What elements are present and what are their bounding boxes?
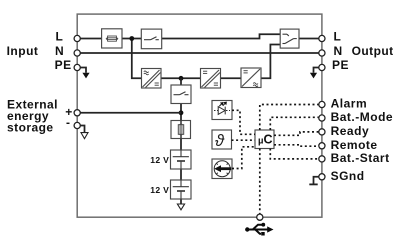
svg-text:Input: Input bbox=[7, 44, 39, 58]
relay K1 symbol bbox=[283, 34, 297, 43]
svg-text:SGnd: SGnd bbox=[331, 169, 365, 183]
node junction DC bus bbox=[179, 76, 184, 81]
arrow ext storage minus open bbox=[81, 133, 88, 139]
wire relay to L output bbox=[299, 38, 322, 40]
svg-text:Alarm: Alarm bbox=[331, 97, 368, 111]
wire DC bus box1-box2 bbox=[161, 77, 201, 79]
svg-text:Bat.-Mode: Bat.-Mode bbox=[331, 110, 394, 124]
battery B1 symbol bbox=[173, 150, 189, 169]
svg-text:Ready: Ready bbox=[331, 124, 370, 138]
dotted ready line bbox=[274, 132, 322, 135]
svg-text:N: N bbox=[55, 44, 64, 58]
wire DC bus box2-box3 bbox=[221, 77, 242, 79]
microcontroller uC box bbox=[255, 130, 274, 149]
fuse F1 symbol bbox=[106, 36, 119, 41]
switch S1 symbol bbox=[144, 37, 159, 40]
fuse F1 input box bbox=[102, 29, 122, 48]
terminal sgnd bbox=[319, 174, 325, 180]
svg-text:L: L bbox=[56, 30, 63, 44]
dotted temp to uC bbox=[232, 139, 256, 141]
current sensor symbol circle bbox=[214, 161, 230, 177]
wire PE right stub bbox=[314, 68, 322, 73]
current sensor ticks bbox=[216, 163, 228, 174]
svg-text:12 V: 12 V bbox=[150, 155, 169, 165]
terminal L in bbox=[74, 35, 80, 41]
svg-text:Remote: Remote bbox=[331, 138, 378, 152]
fuse F2 symbol bbox=[178, 121, 183, 139]
USB symbol bbox=[247, 225, 269, 234]
wire N line bbox=[77, 52, 322, 54]
terminal N in bbox=[74, 50, 80, 56]
battery B2 box bbox=[171, 180, 192, 199]
switch S2 symbol bbox=[174, 92, 189, 95]
terminal plus bbox=[74, 110, 80, 116]
glyph U3 DC bbox=[244, 71, 248, 73]
wire branch L down to AC/DC bbox=[132, 39, 142, 79]
switch S2 battery box bbox=[171, 85, 191, 104]
dotted LED to uC bbox=[232, 110, 255, 134]
svg-text:Output: Output bbox=[352, 44, 394, 58]
node junction L branch bbox=[129, 36, 134, 41]
battery B1 box bbox=[171, 150, 192, 169]
terminal L out bbox=[319, 35, 325, 41]
wire PE left stub bbox=[77, 68, 86, 73]
wire L fuse to switch bbox=[122, 38, 142, 40]
dotted alarm line bbox=[260, 105, 322, 131]
current sensor box bbox=[212, 159, 232, 179]
terminal remote bbox=[319, 143, 325, 149]
LED symbol bbox=[214, 102, 230, 115]
glyph U2 DC top bbox=[203, 71, 207, 73]
dotted current sensor to uC bbox=[232, 147, 255, 169]
node junction ext storage bbox=[179, 110, 184, 115]
SGnd symbol bbox=[314, 177, 322, 184]
converter U3 DC/AC box bbox=[241, 68, 261, 88]
glyph U2 DC bottom bbox=[214, 83, 218, 85]
dotted usb line bbox=[259, 149, 261, 218]
switch S1 input box bbox=[141, 29, 161, 49]
terminal N out bbox=[319, 50, 325, 56]
relay K1 transfer switch box bbox=[280, 29, 299, 48]
dotted bat-start line bbox=[270, 149, 322, 159]
glyph U3 AC bbox=[253, 83, 258, 87]
outer enclosure box bbox=[77, 14, 322, 217]
svg-text:µC: µC bbox=[258, 132, 273, 146]
terminal minus bbox=[74, 122, 80, 128]
wire battery column bbox=[180, 78, 182, 85]
wire L switch to relay with jog bbox=[161, 34, 280, 38]
svg-text:ϑ: ϑ bbox=[215, 132, 225, 150]
svg-text:PE: PE bbox=[332, 58, 349, 72]
fuse F2 battery box bbox=[171, 121, 191, 139]
converter U2 DC/DC box bbox=[201, 69, 221, 89]
terminal usb bbox=[257, 214, 263, 220]
terminal PE in bbox=[74, 64, 80, 70]
svg-text:-: - bbox=[66, 116, 70, 130]
terminal PE out bbox=[319, 64, 325, 70]
wire L input bbox=[77, 38, 101, 40]
svg-text:12 V: 12 V bbox=[150, 185, 169, 195]
terminal bat-start bbox=[319, 156, 325, 162]
glyph U1 AC bbox=[144, 71, 149, 75]
current sensor arrow bbox=[214, 165, 231, 172]
arrow battery bottom open bbox=[177, 204, 184, 210]
arrow PE right filled bbox=[310, 73, 317, 79]
svg-text:PE: PE bbox=[55, 58, 72, 72]
svg-text:storage: storage bbox=[7, 121, 54, 135]
dotted bat-mode line bbox=[270, 117, 322, 130]
wire inverter to relay bbox=[261, 45, 280, 79]
battery B2 symbol bbox=[173, 180, 189, 199]
wire external storage minus stub bbox=[77, 126, 84, 133]
svg-text:Bat.-Start: Bat.-Start bbox=[331, 151, 390, 165]
temperature sensor box bbox=[212, 130, 232, 149]
terminal alarm bbox=[319, 101, 325, 107]
svg-text:N: N bbox=[334, 44, 343, 58]
terminal ready bbox=[319, 129, 325, 135]
terminal bat-mode bbox=[319, 115, 325, 121]
dotted remote line bbox=[274, 145, 322, 146]
wire external storage plus bbox=[77, 112, 181, 114]
converter U1 AC/DC box bbox=[142, 69, 162, 89]
svg-text:L: L bbox=[334, 30, 341, 44]
glyph U1 DC bbox=[155, 83, 159, 85]
LED indicator box bbox=[212, 101, 232, 120]
arrow PE left filled bbox=[82, 73, 89, 79]
